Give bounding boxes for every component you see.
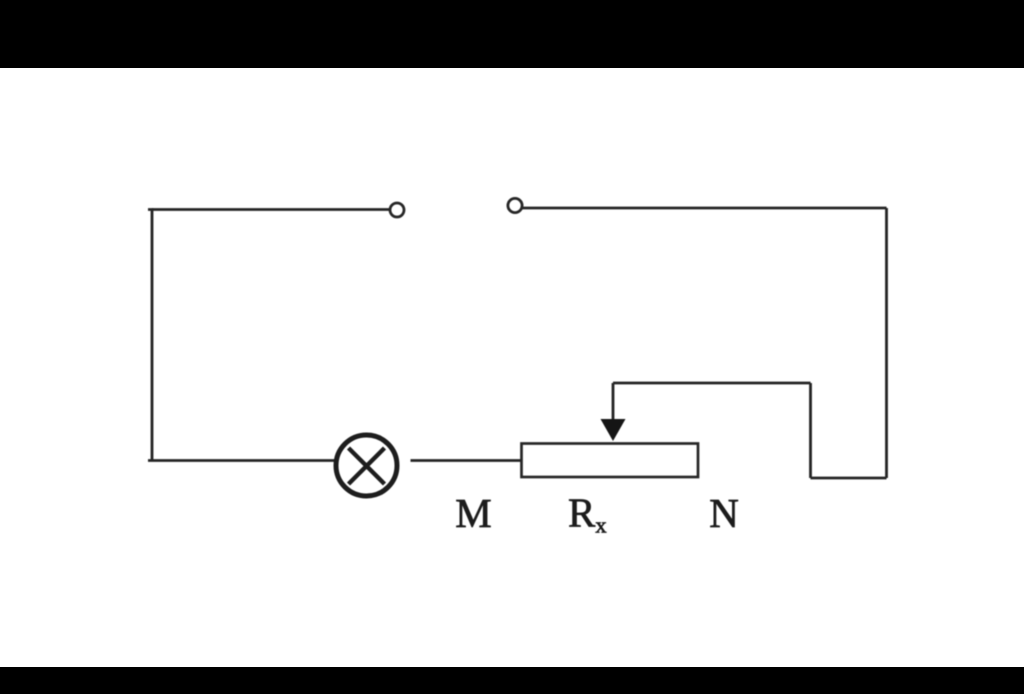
switch terminal left bbox=[390, 203, 404, 217]
wire: wiper vertical stem bbox=[612, 383, 615, 422]
wire: wiper horizontal bbox=[613, 382, 811, 385]
wire: bottom-left horizontal to lamp bbox=[148, 459, 334, 462]
lamp X bbox=[349, 448, 385, 484]
wire: top-left horizontal to switch bbox=[152, 208, 391, 211]
wire: bottom-right horizontal bbox=[811, 477, 887, 480]
svg-text:Rx: Rx bbox=[568, 490, 607, 538]
svg-text:M: M bbox=[455, 490, 491, 536]
switch terminal right bbox=[508, 198, 522, 212]
wiper arrowhead bbox=[601, 419, 626, 441]
resistor Rx box bbox=[522, 444, 699, 478]
wire: inner vertical (wiper return) bbox=[809, 383, 812, 478]
lamp circle bbox=[336, 435, 397, 496]
wire: right vertical bbox=[885, 208, 888, 478]
wire: lamp to resistor bbox=[411, 459, 522, 462]
svg-text:N: N bbox=[709, 490, 739, 536]
top black bar bbox=[0, 0, 1024, 68]
wire: left vertical bbox=[148, 210, 152, 461]
wire: top-right horizontal from switch bbox=[522, 207, 887, 210]
bottom black bar bbox=[0, 667, 1024, 694]
